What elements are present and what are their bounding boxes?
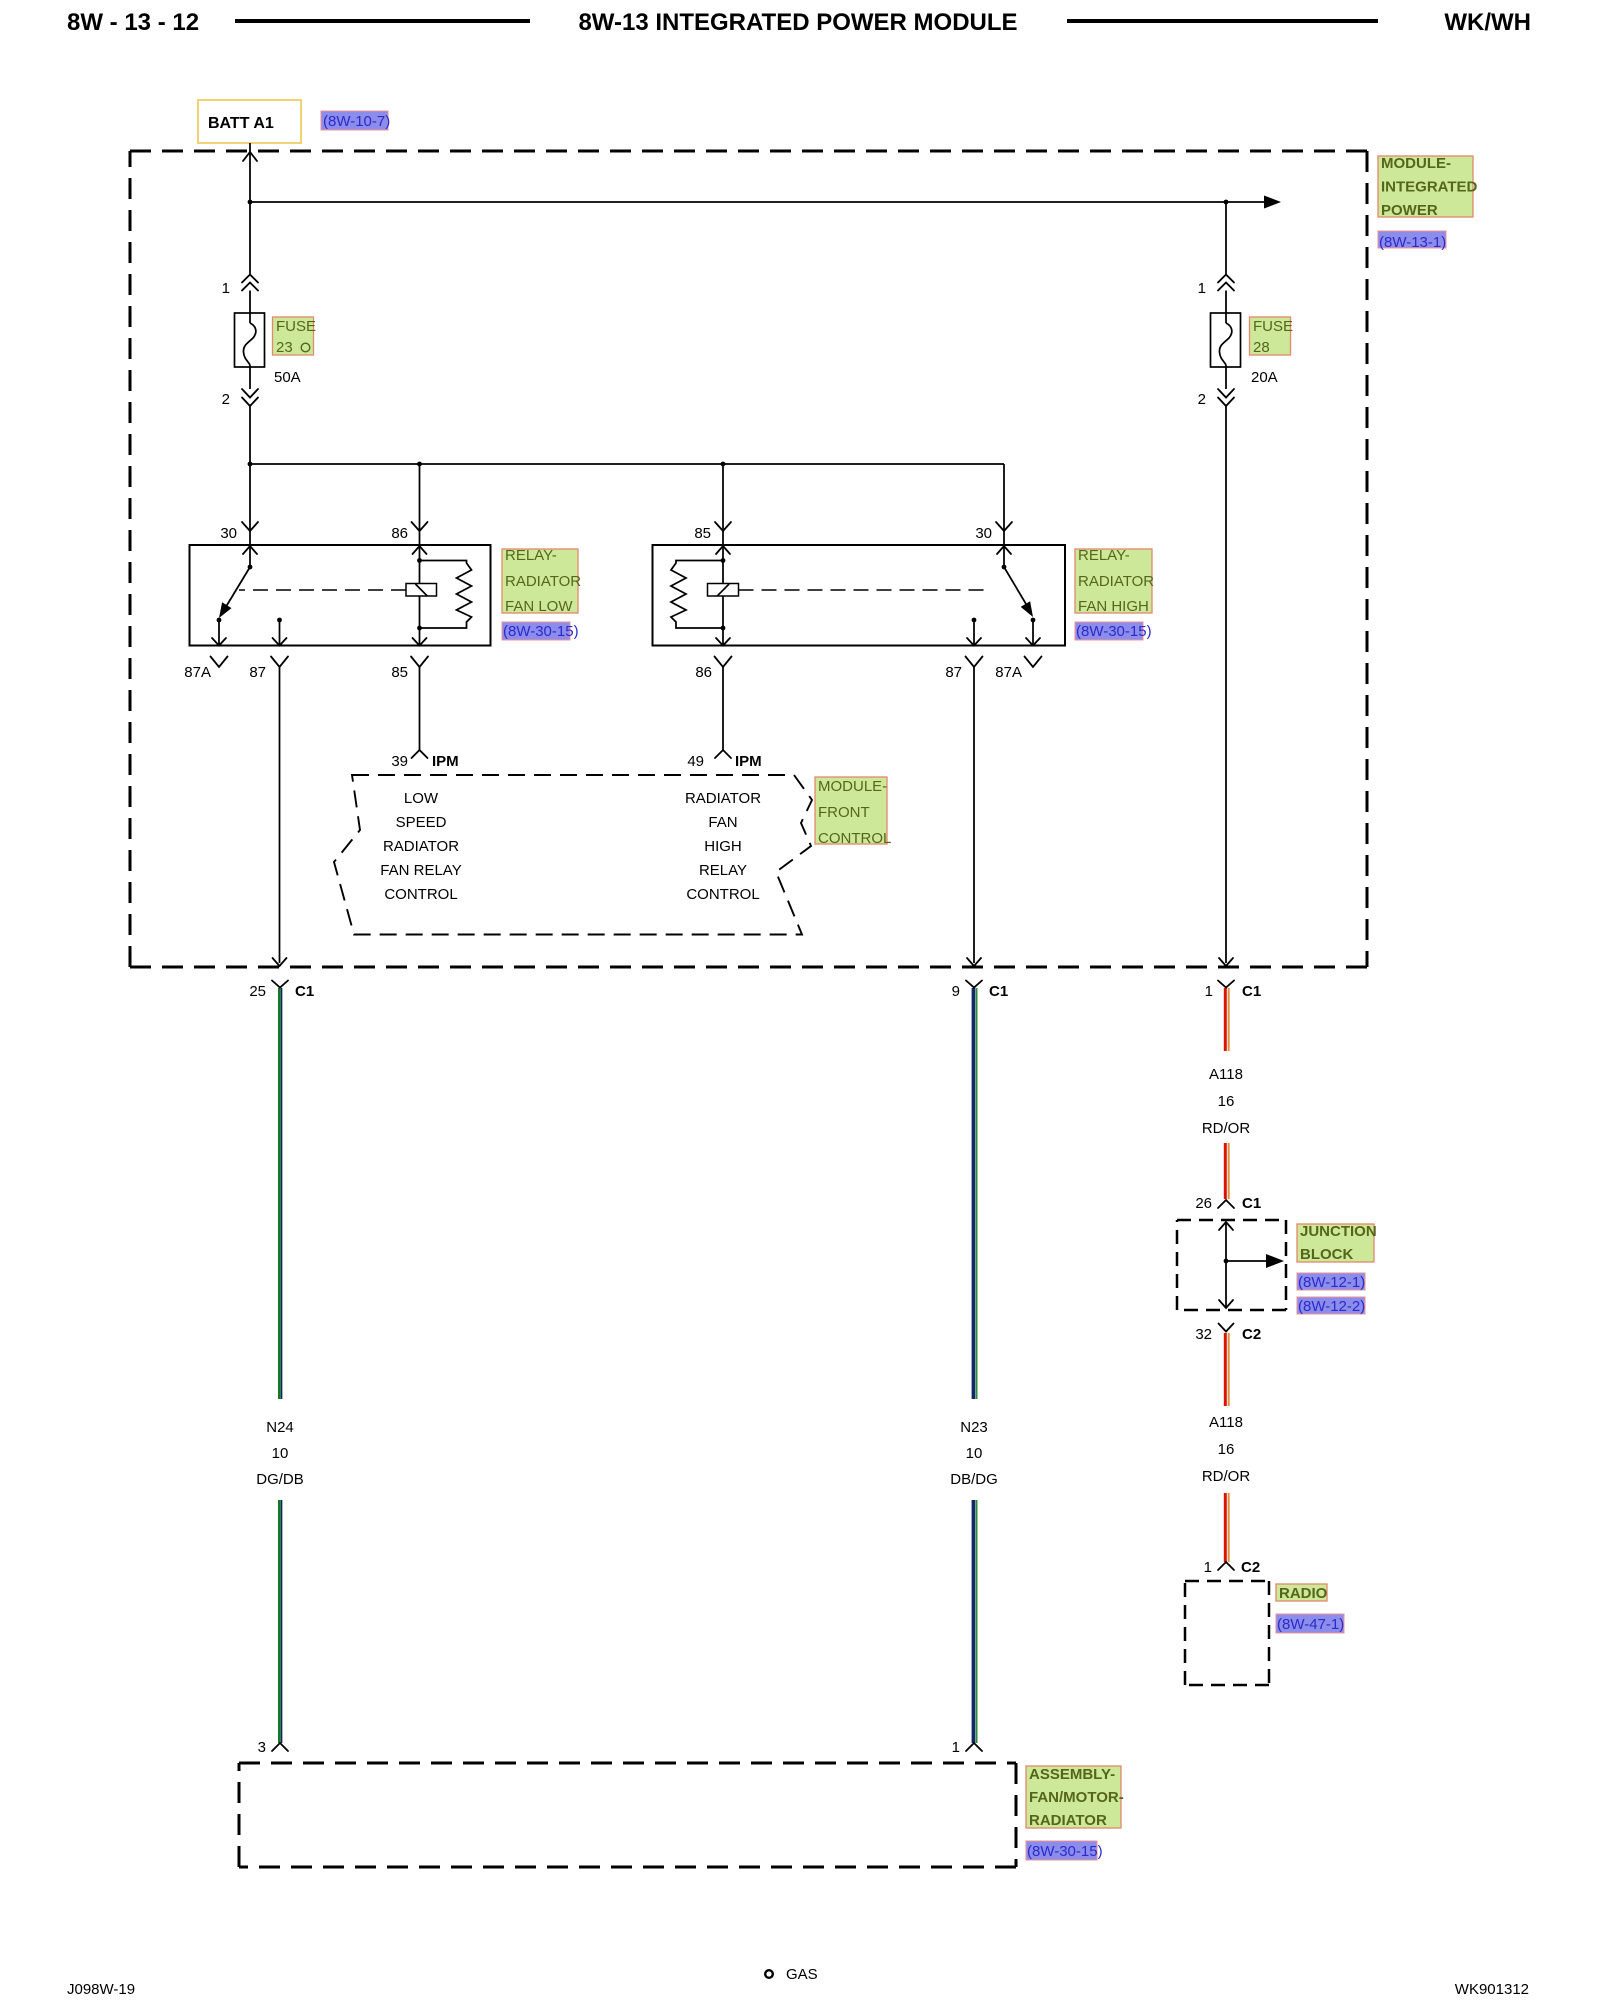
svg-text:BLOCK: BLOCK: [1300, 1246, 1353, 1263]
svg-text:1: 1: [1204, 1559, 1212, 1576]
svg-text:39: 39: [391, 753, 408, 770]
svg-text:DG/DB: DG/DB: [256, 1471, 304, 1488]
svg-text:2: 2: [222, 391, 230, 408]
svg-text:26: 26: [1195, 1195, 1212, 1212]
svg-text:FAN: FAN: [708, 814, 737, 831]
svg-text:C1: C1: [295, 983, 314, 1000]
svg-text:FRONT: FRONT: [818, 804, 870, 821]
svg-text:10: 10: [272, 1445, 289, 1462]
svg-text:RELAY-: RELAY-: [505, 547, 557, 564]
svg-text:WK901312: WK901312: [1455, 1981, 1529, 1998]
svg-text:RD/OR: RD/OR: [1202, 1468, 1251, 1485]
svg-text:10: 10: [966, 1445, 983, 1462]
svg-text:C1: C1: [989, 983, 1008, 1000]
svg-text:(8W-10-7): (8W-10-7): [323, 113, 390, 130]
svg-text:9: 9: [952, 983, 960, 1000]
svg-text:RD/OR: RD/OR: [1202, 1120, 1251, 1137]
svg-text:(8W-47-1): (8W-47-1): [1277, 1616, 1344, 1633]
svg-text:2: 2: [1198, 391, 1206, 408]
svg-text:(8W-30-15): (8W-30-15): [1076, 623, 1152, 640]
svg-text:RADIO: RADIO: [1279, 1585, 1328, 1602]
svg-text:A118: A118: [1209, 1414, 1243, 1431]
svg-text:MODULE-: MODULE-: [818, 778, 887, 795]
svg-text:50A: 50A: [274, 369, 301, 386]
svg-text:8W - 13 - 12: 8W - 13 - 12: [67, 9, 199, 36]
svg-text:16: 16: [1218, 1093, 1235, 1110]
svg-text:HIGH: HIGH: [704, 838, 742, 855]
svg-text:FUSE: FUSE: [1253, 318, 1293, 335]
svg-text:86: 86: [695, 664, 712, 681]
svg-text:FAN HIGH: FAN HIGH: [1078, 598, 1149, 615]
svg-text:(8W-12-1): (8W-12-1): [1298, 1274, 1365, 1291]
svg-text:RADIATOR: RADIATOR: [505, 573, 581, 590]
svg-text:INTEGRATED: INTEGRATED: [1381, 179, 1478, 196]
svg-text:28: 28: [1253, 339, 1270, 356]
svg-text:LOW: LOW: [404, 790, 439, 807]
svg-text:49: 49: [687, 753, 704, 770]
svg-text:87A: 87A: [995, 664, 1022, 681]
svg-text:87: 87: [249, 664, 266, 681]
svg-text:8W-13 INTEGRATED POWER MODULE: 8W-13 INTEGRATED POWER MODULE: [578, 9, 1017, 36]
svg-text:N23: N23: [960, 1419, 988, 1436]
svg-text:85: 85: [694, 525, 711, 542]
svg-text:BATT A1: BATT A1: [208, 115, 274, 132]
svg-text:FAN RELAY: FAN RELAY: [380, 862, 461, 879]
svg-text:16: 16: [1218, 1441, 1235, 1458]
svg-text:30: 30: [220, 525, 237, 542]
svg-text:GAS: GAS: [786, 1966, 818, 1983]
svg-text:DB/DG: DB/DG: [950, 1471, 998, 1488]
svg-text:SPEED: SPEED: [396, 814, 447, 831]
svg-text:(8W-12-2): (8W-12-2): [1298, 1298, 1365, 1315]
svg-text:IPM: IPM: [432, 753, 459, 770]
svg-text:FAN/MOTOR-: FAN/MOTOR-: [1029, 1789, 1124, 1806]
svg-text:POWER: POWER: [1381, 202, 1438, 219]
svg-text:RELAY: RELAY: [699, 862, 747, 879]
svg-text:C2: C2: [1241, 1559, 1260, 1576]
svg-text:(8W-30-15): (8W-30-15): [1027, 1843, 1103, 1860]
svg-text:RELAY-: RELAY-: [1078, 547, 1130, 564]
svg-text:CONTROL: CONTROL: [818, 830, 891, 847]
svg-text:25: 25: [249, 983, 266, 1000]
svg-text:3: 3: [258, 1739, 266, 1756]
svg-text:86: 86: [391, 525, 408, 542]
svg-text:23: 23: [276, 339, 293, 356]
svg-text:1: 1: [1198, 280, 1206, 297]
svg-text:JUNCTION: JUNCTION: [1300, 1223, 1377, 1240]
svg-text:85: 85: [391, 664, 408, 681]
svg-text:FAN LOW: FAN LOW: [505, 598, 573, 615]
svg-text:RADIATOR: RADIATOR: [1029, 1812, 1107, 1829]
svg-text:20A: 20A: [1251, 369, 1278, 386]
svg-text:MODULE-: MODULE-: [1381, 155, 1451, 172]
svg-text:CONTROL: CONTROL: [686, 886, 759, 903]
svg-text:C1: C1: [1242, 983, 1261, 1000]
svg-text:WK/WH: WK/WH: [1444, 9, 1531, 36]
svg-text:87: 87: [945, 664, 962, 681]
svg-text:RADIATOR: RADIATOR: [1078, 573, 1154, 590]
svg-text:IPM: IPM: [735, 753, 762, 770]
svg-text:RADIATOR: RADIATOR: [383, 838, 459, 855]
svg-text:1: 1: [1205, 983, 1213, 1000]
svg-text:CONTROL: CONTROL: [384, 886, 457, 903]
svg-text:RADIATOR: RADIATOR: [685, 790, 761, 807]
svg-text:87A: 87A: [184, 664, 211, 681]
svg-text:N24: N24: [266, 1419, 294, 1436]
svg-text:C2: C2: [1242, 1326, 1261, 1343]
svg-text:(8W-13-1): (8W-13-1): [1379, 234, 1446, 251]
svg-text:32: 32: [1195, 1326, 1212, 1343]
svg-text:1: 1: [222, 280, 230, 297]
svg-text:30: 30: [975, 525, 992, 542]
svg-text:FUSE: FUSE: [276, 318, 316, 335]
svg-text:(8W-30-15): (8W-30-15): [503, 623, 579, 640]
svg-text:1: 1: [952, 1739, 960, 1756]
svg-text:A118: A118: [1209, 1066, 1243, 1083]
svg-text:C1: C1: [1242, 1195, 1261, 1212]
svg-text:ASSEMBLY-: ASSEMBLY-: [1029, 1766, 1115, 1783]
svg-text:J098W-19: J098W-19: [67, 1981, 135, 1998]
